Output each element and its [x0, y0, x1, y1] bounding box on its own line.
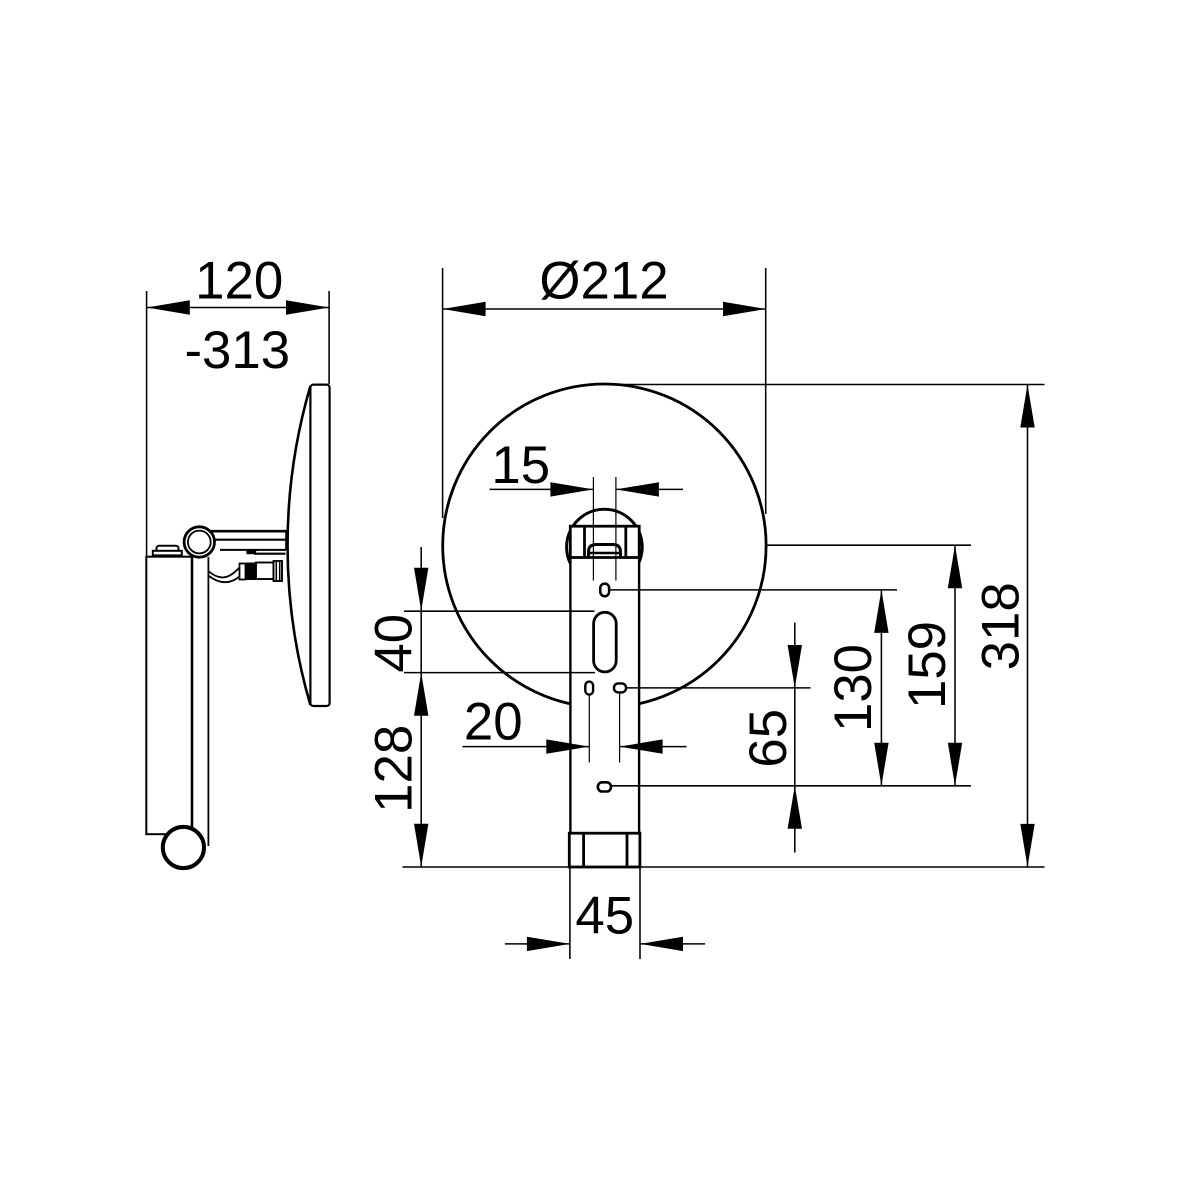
stem hole bottom — [598, 782, 611, 791]
svg-text:Ø212: Ø212 — [539, 252, 668, 311]
arm bracket lip — [254, 553, 286, 555]
wall plate — [146, 557, 192, 835]
leader slot bottom — [404, 672, 595, 674]
dim 120 extension line left — [146, 291, 148, 557]
svg-text:45: 45 — [575, 887, 634, 946]
stem top cap — [570, 526, 639, 557]
cable wire lower — [209, 576, 240, 582]
clamp window — [589, 545, 621, 558]
stem slot — [594, 612, 617, 672]
svg-text:15: 15 — [491, 436, 550, 495]
dim 120 extension line right — [328, 291, 330, 384]
svg-text:40: 40 — [364, 614, 423, 673]
leader slot top — [404, 610, 595, 612]
arm horizontal bottom line — [220, 549, 286, 551]
arm horizontal mid line — [213, 539, 287, 541]
mirror circle — [443, 384, 766, 707]
plug body black — [246, 563, 257, 581]
arm end cap — [285, 531, 287, 550]
leader stem bottom — [403, 866, 1045, 868]
centerline 15 left — [592, 477, 594, 581]
svg-text:318: 318 — [971, 582, 1030, 670]
pivot ball — [163, 827, 204, 868]
cable clamp block — [246, 549, 256, 554]
dim 120 arrow left — [147, 300, 190, 314]
leader hole mid — [627, 687, 811, 689]
leader hole bottom — [612, 785, 972, 787]
stem bottom cap — [569, 833, 640, 867]
svg-text:130: 130 — [824, 644, 883, 732]
stem dome ball — [567, 509, 643, 585]
centerline 20 left — [588, 695, 590, 763]
centerline 20 right — [619, 693, 621, 763]
svg-text:-313: -313 — [184, 321, 290, 380]
mirror back slab (side view) — [310, 385, 329, 706]
leader circle top — [605, 384, 1045, 386]
plug cylinder — [256, 563, 274, 580]
svg-text:128: 128 — [364, 725, 423, 813]
plug end cap — [274, 561, 283, 581]
arm horizontal top line — [211, 530, 287, 533]
arm vertical left edge — [191, 557, 194, 828]
svg-text:20: 20 — [464, 692, 523, 751]
svg-text:65: 65 — [739, 709, 798, 768]
svg-text:120: 120 — [195, 252, 283, 311]
stem hole top — [600, 584, 609, 597]
hinge outer ring — [184, 527, 214, 557]
dim 120 dimension line — [147, 307, 329, 309]
plug flange — [240, 564, 246, 580]
stem hole mid-right — [614, 683, 626, 692]
leader hole top — [608, 589, 897, 591]
stem body — [570, 558, 639, 867]
mirror front curve (side view) — [288, 386, 311, 705]
stem hole mid-left — [585, 682, 593, 695]
svg-text:159: 159 — [898, 621, 957, 709]
leader circle right — [767, 544, 971, 546]
centerline 15 right — [615, 477, 617, 581]
arm vertical right edge — [207, 557, 209, 846]
wall plate cap bump — [157, 546, 179, 553]
cable wire upper — [209, 568, 240, 578]
dim 120 arrow right — [286, 300, 329, 314]
hinge inner ring — [188, 531, 211, 554]
